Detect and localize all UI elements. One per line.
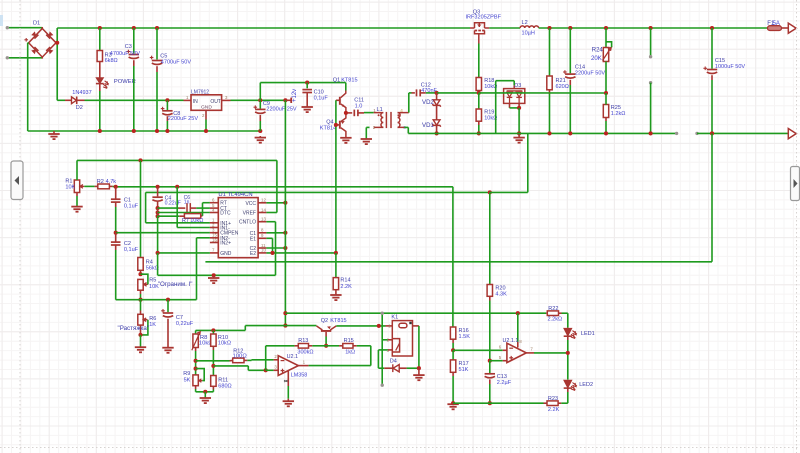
svg-text:2200uF 50V: 2200uF 50V: [575, 70, 606, 76]
junction C8 gnd: [165, 129, 169, 133]
resistor R11: [212, 366, 214, 376]
mosfet Q3 IRF3205ZPBF: [470, 23, 489, 44]
svg-text:2200uF 25V: 2200uF 25V: [266, 106, 297, 112]
potentiometer R9: [193, 375, 198, 386]
pin 2 IN1- U1: [210, 227, 218, 229]
capacitor C1: [115, 187, 117, 199]
resistor R17: [452, 350, 454, 360]
svg-text:D4: D4: [390, 359, 397, 365]
wire Q2 emitter to K1: [336, 325, 385, 327]
pin 2 GND LM7912: [205, 110, 207, 119]
svg-text:680Ω: 680Ω: [218, 384, 231, 390]
wire K1 pin2: [388, 339, 393, 341]
wire K1 pin4 to ground node: [413, 325, 419, 327]
wire control ground rail: [158, 274, 276, 276]
svg-text:2200uF 25V: 2200uF 25V: [168, 116, 199, 122]
svg-text:C3: C3: [125, 44, 132, 50]
capacitor C4: [157, 187, 159, 197]
svg-text:1kΩ: 1kΩ: [345, 350, 355, 356]
wire top rail +: [57, 27, 470, 29]
port AC1 endpoint: [6, 26, 9, 29]
resistor R25: [603, 105, 608, 118]
power pin U2.1: [287, 371, 289, 386]
svg-text:0,1uF: 0,1uF: [314, 96, 329, 102]
pin 14 VREF U1: [258, 212, 266, 214]
pin 13 CNTLO U1: [258, 221, 266, 223]
wire R8 bottom: [195, 348, 197, 352]
junction C9 gnd: [258, 129, 262, 133]
svg-text:51K: 51K: [459, 367, 469, 373]
svg-text:R21: R21: [556, 78, 566, 84]
ic U1 TL494CN: [218, 198, 258, 258]
svg-text:R2: R2: [97, 179, 104, 185]
wire CNTLO pin to gnd rail: [266, 221, 275, 223]
junction R5 bottom: [138, 298, 142, 302]
ground input section: [53, 131, 55, 134]
wire DTC line: [158, 212, 210, 214]
resistor R15: [326, 345, 339, 347]
junction pin3 node: [264, 368, 268, 372]
resistor R16: [450, 327, 455, 339]
port output plus: [782, 27, 789, 29]
wire L1 pin3 down: [405, 126, 409, 128]
trimmer R24: [605, 28, 607, 48]
pin 15 IN2- U1: [210, 237, 218, 239]
svg-text:VD1: VD1: [422, 123, 434, 129]
svg-text:C13: C13: [497, 374, 507, 380]
svg-text:R16: R16: [459, 328, 469, 334]
svg-text:R6: R6: [149, 316, 156, 322]
wire CMPEN line: [116, 232, 210, 234]
junction K1 pin1: [377, 324, 381, 328]
capacitor C14: [569, 28, 571, 73]
junction C5 gnd: [155, 129, 159, 133]
svg-text:5K: 5K: [184, 377, 191, 383]
junction CT node: [156, 206, 160, 210]
svg-text:0,1uF: 0,1uF: [124, 204, 139, 210]
resistor R20: [487, 285, 492, 297]
svg-text:1.2kΩ: 1.2kΩ: [611, 111, 626, 117]
pin 8 C1 U1: [258, 232, 266, 234]
pin 1 LM7912: [184, 99, 192, 101]
inductor L2: [520, 26, 539, 28]
ground divider: [447, 404, 458, 409]
wire out riser to driver rail: [259, 83, 261, 101]
ground control section: [213, 275, 215, 277]
svg-text:1K: 1K: [149, 322, 156, 328]
junction base line end: [283, 324, 287, 328]
svg-text:IRF3205ZPBF: IRF3205ZPBF: [466, 15, 502, 21]
svg-text:16: 16: [212, 237, 217, 242]
bridge rectifier D1: [29, 27, 56, 59]
pin 9 E1 U1: [258, 237, 266, 239]
junction Q4 base: [334, 123, 338, 127]
junction break bottom: [649, 131, 653, 135]
junction bridge plus: [55, 41, 59, 45]
splitter track bottom: [0, 447, 800, 449]
svg-text:1.5K: 1.5K: [459, 334, 471, 340]
svg-text:CNTLO: CNTLO: [239, 220, 256, 226]
svg-text:R20: R20: [495, 285, 505, 291]
svg-text:R11: R11: [218, 377, 228, 383]
svg-text:R1: R1: [65, 178, 72, 184]
wire R9 R11 bottoms: [196, 391, 214, 393]
svg-text:1.0: 1.0: [355, 104, 363, 110]
wire R12 to pin2: [247, 359, 251, 361]
junction C7 top: [166, 298, 170, 302]
svg-text:U2.1: U2.1: [287, 354, 298, 360]
svg-text:1: 1: [373, 108, 376, 113]
junction CMPEN: [114, 231, 118, 235]
resistor R12: [196, 360, 230, 362]
wire feedback mid rail: [479, 92, 606, 94]
resistor R2: [84, 185, 94, 187]
junction C4 top: [156, 185, 160, 189]
junction break top: [649, 26, 653, 30]
svg-text:C11: C11: [354, 97, 364, 103]
zener VD2: [436, 93, 438, 100]
svg-text:0.22uF: 0.22uF: [165, 201, 181, 207]
wire R13 branch: [265, 346, 267, 371]
svg-text:L1: L1: [377, 107, 383, 113]
svg-text:OUT: OUT: [210, 99, 221, 105]
svg-text:620Ω: 620Ω: [556, 84, 569, 90]
junction R21 top: [547, 26, 551, 30]
svg-text:K1: K1: [391, 315, 398, 321]
svg-text:GND: GND: [201, 105, 212, 111]
resistor R19: [478, 93, 480, 109]
svg-text:C2: C2: [124, 241, 131, 247]
capacitor C6: [158, 207, 179, 209]
capacitor C2: [115, 233, 117, 242]
wire E2 pin: [266, 252, 336, 254]
junction R10 top: [211, 328, 215, 332]
svg-text:R9: R9: [183, 371, 190, 377]
junction R25 bottom: [604, 131, 608, 135]
svg-text:1n: 1n: [184, 199, 190, 205]
svg-text:D2: D2: [76, 105, 83, 111]
junction DTC node: [156, 210, 160, 214]
svg-text:100Ω: 100Ω: [233, 354, 248, 360]
wire broken upper: [650, 28, 652, 57]
wire AC input 2: [7, 57, 42, 59]
svg-text:LED2: LED2: [579, 382, 593, 388]
capacitor C10: [305, 81, 309, 85]
junction control gnd: [212, 273, 216, 277]
wire K1 pin3: [388, 349, 393, 351]
wire lower ground rail: [453, 402, 543, 404]
svg-text:KT815: KT815: [341, 77, 357, 83]
svg-text:R14: R14: [340, 278, 350, 284]
resistor R4: [140, 160, 142, 257]
resistor R23: [567, 388, 569, 392]
wire sense line upper: [116, 186, 453, 188]
wire dangling relay common: [381, 313, 383, 385]
resistor R22: [546, 312, 547, 314]
junction Q1 emitter: [344, 111, 348, 115]
port AC2 endpoint: [6, 56, 9, 59]
svg-text:C1: C1: [124, 197, 131, 203]
wire Q3 gate down: [478, 44, 480, 78]
diode D2: [57, 99, 65, 101]
wire E1 pin: [266, 237, 272, 239]
junction R11 R10 node: [211, 364, 215, 368]
potentiometer R1: [74, 180, 79, 193]
svg-text:LM7912: LM7912: [191, 90, 209, 96]
svg-text:5A: 5A: [773, 21, 780, 27]
capacitor C12: [412, 92, 415, 94]
wire sense drop R16: [452, 187, 454, 327]
svg-text:VREF: VREF: [243, 211, 256, 217]
svg-text:4700uF 50V: 4700uF 50V: [110, 51, 141, 57]
svg-text:VCC: VCC: [245, 201, 256, 207]
wire L1 pin4 up: [408, 93, 410, 113]
svg-text:R4: R4: [146, 259, 153, 265]
svg-text:E1: E1: [250, 236, 256, 242]
svg-text:4.3K: 4.3K: [495, 292, 507, 298]
zener VD1: [432, 120, 440, 127]
junction Q2 base: [324, 344, 328, 348]
junction R4 R5: [138, 272, 142, 276]
potentiometer R5: [138, 279, 143, 290]
junction R19 bottom: [477, 131, 481, 135]
junction R3 top: [98, 26, 102, 30]
junction E1 E2: [270, 251, 274, 255]
ground output rail: [518, 133, 520, 137]
resistor R13: [266, 345, 295, 347]
ground K1 D4: [418, 368, 420, 375]
svg-text:U1 TL494CN: U1 TL494CN: [218, 192, 252, 198]
transistor Q2 KT815: [316, 326, 336, 332]
wire D3 cathodes: [509, 103, 511, 108]
led LED2: [564, 380, 577, 390]
opamp U2.1 LM358: [278, 356, 298, 376]
svg-text:Q2: Q2: [321, 318, 328, 324]
svg-text:GND: GND: [220, 251, 232, 257]
wire driver bases: [336, 99, 339, 101]
wire VCC pin: [266, 202, 285, 204]
junction opamp2 out: [567, 337, 569, 341]
wire feedback from output to IN2+: [711, 133, 713, 261]
svg-text:1N4937: 1N4937: [72, 90, 91, 96]
diode D4: [377, 350, 379, 368]
ground U2.1: [283, 401, 294, 406]
wire C1 pin: [266, 232, 285, 234]
junction R4 top: [138, 158, 142, 162]
junction R18 R19: [478, 91, 480, 93]
power tap +12v: [283, 98, 287, 102]
pin 11 C2 U1: [258, 247, 266, 249]
wire VREF line: [77, 159, 277, 161]
junction pin5 node: [488, 359, 492, 363]
svg-text:VD2: VD2: [422, 100, 434, 106]
junction LED feed: [283, 311, 287, 315]
svg-text:2.2K: 2.2K: [340, 284, 352, 290]
wire VREF pin: [266, 212, 277, 214]
wire IN1- route: [175, 185, 179, 189]
wire sense line lower: [146, 191, 490, 193]
svg-text:20K: 20K: [591, 56, 602, 62]
capacitor C8: [166, 100, 168, 110]
wire R7 to RT: [202, 203, 204, 216]
junction R24 top: [604, 26, 608, 30]
splitter thumb right: [791, 167, 800, 201]
splitter thumb left: [11, 161, 23, 200]
resistor R21: [549, 28, 551, 76]
ground L1 pin2: [366, 126, 369, 128]
svg-text:10K: 10K: [65, 185, 75, 191]
svg-text:L2: L2: [522, 20, 528, 26]
wire regulator output: [231, 99, 286, 101]
capacitor C11: [346, 112, 352, 114]
svg-text:6k8Ω: 6k8Ω: [105, 58, 118, 64]
ground R6: [140, 335, 142, 347]
junction C1 top: [114, 185, 118, 189]
resistor R18: [476, 78, 481, 91]
svg-text:R18: R18: [484, 78, 494, 84]
junction C9 out: [258, 98, 262, 102]
svg-text:C7: C7: [176, 315, 183, 321]
wire LED to ground rail: [99, 84, 101, 91]
wire VCC column: [284, 100, 286, 325]
junction R16 R17: [452, 339, 454, 343]
svg-text:IN: IN: [193, 99, 198, 105]
pin 16 IN2+ U1: [210, 242, 218, 244]
svg-text:R25: R25: [611, 105, 621, 111]
svg-text:C10: C10: [314, 89, 324, 95]
svg-text:R22: R22: [548, 306, 558, 312]
svg-text:10µH: 10µH: [522, 31, 535, 37]
wire L2 to fuse: [539, 27, 768, 29]
pin 6 RT U1: [210, 202, 218, 204]
svg-text:D3: D3: [514, 83, 521, 89]
wire C12 to VD2 node: [426, 92, 437, 94]
ground C9: [259, 136, 261, 137]
junction VD2 top: [435, 91, 439, 95]
wire LED feed line: [285, 312, 546, 314]
wire AC input 1: [7, 27, 42, 29]
led LED1: [567, 313, 569, 328]
wire opamp2 out: [534, 352, 568, 354]
svg-text:KT815: KT815: [330, 318, 346, 324]
capacitor C9: [259, 100, 261, 108]
svg-text:0,22uF: 0,22uF: [176, 321, 194, 327]
resistor R7: [158, 215, 180, 217]
svg-text:E2: E2: [250, 251, 256, 257]
pin 3 LM7912: [222, 99, 231, 101]
svg-text:IN2+: IN2+: [220, 241, 231, 247]
led POWER: [99, 62, 101, 78]
junction D4 ground: [417, 366, 421, 370]
svg-text:D1: D1: [33, 21, 40, 27]
pin 5 CT U1: [210, 207, 218, 209]
junction VD1 bottom: [435, 131, 439, 135]
svg-text:4: 4: [400, 108, 403, 113]
ground R9 R11: [204, 392, 206, 398]
junction C5 top: [155, 26, 159, 30]
resistor R14: [335, 253, 337, 278]
diode pack D3: [504, 85, 525, 103]
junction C13 gnd: [488, 401, 492, 405]
svg-text:4.7k: 4.7k: [106, 179, 117, 185]
pin 1 IN1+ U1: [210, 222, 218, 224]
regulator U3 LM7912: [191, 95, 222, 111]
wire C4 chain down: [157, 208, 159, 216]
junction driver base line: [334, 251, 338, 255]
pin 7 GND U1: [210, 252, 218, 254]
junction R6 bottom: [138, 333, 142, 337]
wire sense to C13 column: [488, 190, 492, 194]
pin 4 DTC U1: [210, 212, 218, 214]
svg-text:10kΩ: 10kΩ: [218, 341, 231, 347]
wire VD node to R18 node: [437, 92, 479, 94]
wire pin6 line: [453, 349, 503, 351]
svg-text:R24: R24: [592, 47, 604, 53]
opamp U2.1.1: [507, 343, 526, 362]
svg-text:LED1: LED1: [581, 331, 595, 337]
svg-text:+12v: +12v: [292, 89, 298, 102]
power pin U2.1.1: [517, 313, 519, 342]
junction R12 tap: [194, 359, 198, 363]
trimmer R8: [195, 330, 197, 334]
junction R21 bottom: [547, 131, 551, 135]
svg-text:R17: R17: [459, 361, 469, 367]
transistor Q4 KT814: [339, 113, 346, 137]
junction divider gnd: [451, 401, 455, 405]
wire bridge minus to left rail: [27, 43, 29, 131]
potentiometer R6: [140, 300, 142, 311]
wire gnd drop: [157, 253, 159, 275]
junction C15 top: [710, 26, 714, 30]
junction C15 bottom feedback: [710, 131, 714, 135]
wire R11 node to pin3: [213, 365, 248, 367]
junction U3 gnd: [204, 129, 208, 133]
wire GND pin line: [157, 252, 210, 254]
splitter track left: [19, 0, 21, 453]
port output minus: [788, 129, 796, 139]
ground Q4: [340, 138, 351, 143]
capacitor C5: [156, 28, 158, 60]
wire left ground rail: [28, 130, 261, 132]
svg-text:2: 2: [373, 125, 376, 130]
svg-text:R5: R5: [149, 278, 156, 284]
svg-text:13: 13: [261, 217, 266, 222]
svg-text:12: 12: [261, 198, 266, 203]
wire C2 pin: [266, 247, 285, 249]
wire D2 to regulator: [85, 99, 184, 101]
wire output minus rail: [408, 132, 676, 134]
wire bridge plus node: [56, 28, 58, 100]
relay K1: [386, 325, 393, 327]
svg-text:"Ограним. I": "Ограним. I": [158, 281, 193, 288]
svg-text:2.2µF: 2.2µF: [497, 380, 512, 386]
junction D3 cathode: [517, 106, 521, 110]
junction C14 bottom: [568, 131, 572, 135]
svg-text:R13: R13: [298, 338, 308, 344]
junction C3 top: [132, 26, 136, 30]
svg-text:POWER: POWER: [114, 79, 136, 85]
wire pin5: [490, 360, 503, 362]
capacitor C15: [711, 28, 713, 69]
svg-text:KT814: KT814: [320, 125, 336, 131]
svg-text:DTC: DTC: [220, 211, 231, 217]
svg-text:R19: R19: [484, 109, 494, 115]
junction R9 wiper tap: [194, 367, 198, 371]
svg-text:300kΩ: 300kΩ: [297, 350, 313, 356]
pin 10 E2 U1: [258, 252, 266, 254]
junction gnd chain: [156, 251, 160, 255]
capacitor C3: [133, 28, 135, 54]
